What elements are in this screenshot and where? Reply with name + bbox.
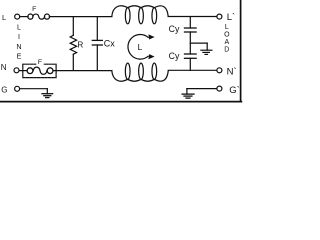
svg-text:Cy: Cy	[169, 51, 180, 61]
terminal G'	[217, 86, 222, 91]
fuse F2 (optional, dashed box)	[23, 61, 56, 78]
svg-text:G: G	[1, 86, 7, 95]
terminal L'	[217, 14, 222, 19]
svg-text:L: L	[2, 13, 6, 22]
terminal N	[14, 68, 19, 73]
wire	[20, 88, 48, 90]
svg-text:Cx: Cx	[104, 38, 115, 48]
svg-text:N: N	[1, 63, 7, 72]
resistor R	[70, 17, 76, 71]
svg-text:D: D	[224, 46, 229, 53]
fuse F	[28, 14, 50, 19]
svg-text:I: I	[18, 32, 20, 41]
svg-text:N: N	[16, 42, 21, 51]
svg-text:F: F	[32, 6, 36, 13]
terminal N'	[217, 68, 222, 73]
wire	[187, 88, 217, 90]
terminal L	[15, 14, 20, 19]
svg-text:A: A	[224, 39, 229, 46]
svg-text:G`: G`	[229, 85, 240, 96]
wire	[53, 70, 112, 72]
wire	[20, 16, 28, 18]
wire	[49, 16, 111, 18]
capacitor Cy1	[185, 17, 197, 54]
ground (left)	[42, 89, 53, 98]
ground (right)	[182, 89, 194, 99]
svg-text:L: L	[17, 23, 21, 32]
svg-text:L: L	[225, 24, 229, 31]
svg-text:L`: L`	[227, 12, 235, 23]
svg-text:O: O	[224, 31, 230, 38]
svg-text:F: F	[38, 59, 42, 66]
wire	[19, 70, 27, 72]
terminal G	[15, 86, 20, 91]
svg-text:E: E	[17, 52, 22, 61]
ground (mid)	[201, 43, 212, 54]
wire	[168, 69, 217, 71]
choke core arrow L	[128, 34, 155, 59]
svg-text:N`: N`	[227, 66, 237, 77]
capacitor Cx	[92, 17, 102, 71]
capacitor Cy2	[185, 54, 197, 70]
svg-text:Cy: Cy	[169, 24, 180, 34]
svg-text:R: R	[77, 40, 83, 49]
choke winding bottom	[112, 63, 169, 81]
node junction to ground	[190, 42, 207, 44]
wire	[168, 16, 217, 18]
choke winding top	[112, 6, 168, 24]
svg-text:L: L	[138, 42, 143, 52]
